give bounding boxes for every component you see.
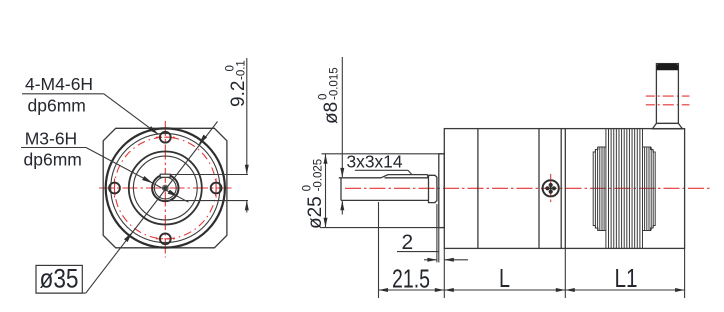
connector red dashes	[646, 95, 690, 97]
keyway key block	[160, 174, 170, 177]
central fin block	[605, 129, 607, 249]
bolt circle (red dash-dot)	[115, 137, 217, 239]
svg-text:9.2: 9.2	[228, 81, 249, 107]
svg-text:L: L	[499, 263, 510, 293]
hole tick W (red)	[114, 179, 116, 198]
label box d35	[36, 122, 218, 294]
circle mid outer	[129, 152, 202, 225]
svg-text:-0.1: -0.1	[236, 60, 248, 80]
svg-text:ø8: ø8	[321, 102, 342, 124]
body	[444, 129, 684, 249]
ext line lower (shaft bottom)	[166, 200, 248, 202]
key 3x3x14	[388, 174, 428, 176]
svg-text:ø35: ø35	[40, 264, 79, 294]
center hole M3	[162, 185, 169, 192]
shaft inner circle	[154, 177, 176, 199]
centerline (red)	[345, 187, 712, 189]
outer circle d35	[106, 128, 225, 247]
svg-text:dp6mm: dp6mm	[24, 150, 82, 170]
screw centerline tick (red)	[550, 174, 552, 202]
left fin wing	[593, 147, 606, 231]
label M3-6H dp6mm	[21, 129, 189, 203]
dimension 21.5	[379, 202, 445, 298]
leader across shaft	[86, 148, 189, 203]
label 4-M4-6H dp6mm	[22, 74, 159, 135]
dimension d8	[341, 57, 343, 215]
svg-text:-0.015: -0.015	[329, 67, 341, 100]
svg-text:dp6mm: dp6mm	[28, 96, 86, 116]
hole N	[160, 132, 171, 143]
right fin wing	[643, 147, 656, 231]
svg-text:2: 2	[402, 231, 414, 254]
diagonal diameter leader	[86, 122, 218, 294]
hole tick E (red)	[215, 179, 217, 198]
dimension d25	[322, 154, 445, 228]
pilot boss d25	[439, 154, 445, 228]
fins	[593, 129, 655, 249]
text 9.2 0 -0.1 (rotated)	[225, 60, 250, 107]
dimension 9.2	[166, 58, 248, 213]
svg-text:L1: L1	[615, 263, 638, 293]
svg-text:-0.025: -0.025	[312, 159, 324, 192]
svg-text:ø25: ø25	[305, 196, 326, 229]
circle inner of outer	[111, 133, 220, 242]
centerline horizontal (red)	[99, 187, 233, 189]
dimension L	[444, 248, 565, 298]
hole tick S (red)	[156, 238, 175, 240]
connector black cap	[656, 64, 678, 71]
svg-text:M3-6H: M3-6H	[25, 129, 78, 149]
collar	[429, 175, 437, 202]
svg-text:21.5: 21.5	[392, 264, 430, 294]
svg-text:3x3x14: 3x3x14	[347, 152, 403, 172]
connector / rear bushing	[652, 64, 682, 129]
label 3x3x14	[347, 152, 413, 175]
circle mid inner	[133, 156, 197, 220]
hole S	[160, 233, 171, 244]
hole tick N (red)	[156, 136, 175, 138]
dim line vertical	[246, 58, 248, 174]
dimension 2	[397, 204, 468, 262]
shaft circle	[152, 175, 178, 201]
hole W	[109, 183, 120, 194]
flange square outline	[103, 128, 227, 248]
body joint lines	[477, 129, 479, 249]
dimension L1	[565, 248, 684, 298]
centerline vertical (red)	[164, 121, 166, 258]
shaft outline	[339, 177, 381, 179]
leader to top hole	[104, 94, 159, 135]
hole E	[211, 183, 222, 194]
svg-text:4-M4-6H: 4-M4-6H	[25, 74, 93, 94]
ext line upper (keyway top)	[170, 174, 248, 176]
screw	[543, 180, 559, 196]
